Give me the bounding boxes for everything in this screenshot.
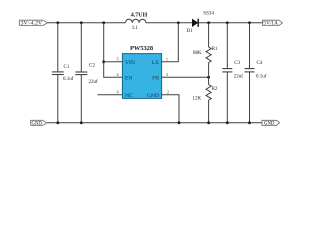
ground net label right GND: [262, 120, 280, 126]
svg-text:4.7UH: 4.7UH: [131, 13, 148, 19]
wire bottom rail: [47, 122, 262, 124]
svg-text:1: 1: [166, 58, 168, 62]
junction dot bottom rail at C3: [226, 121, 229, 124]
wire VIN pin: [104, 61, 123, 63]
junction dot bottom rail at C4: [248, 121, 251, 124]
junction dot top rail at C4: [248, 21, 251, 24]
wire top rail from input label to inductor L1: [47, 22, 125, 24]
capacitor C3 22uf: [222, 23, 243, 123]
svg-text:4: 4: [117, 73, 119, 77]
svg-text:C2: C2: [89, 63, 95, 68]
svg-text:12K: 12K: [193, 96, 202, 101]
capacitor C1 0.1uf: [52, 23, 74, 123]
wire NC stub: [98, 94, 123, 96]
wire top rail from diode to output label: [199, 22, 263, 24]
svg-text:LX: LX: [152, 60, 159, 66]
ground net label left GND: [31, 120, 47, 126]
svg-text:88K: 88K: [193, 51, 202, 56]
svg-text:2: 2: [167, 91, 169, 95]
svg-text:0.1uf: 0.1uf: [256, 75, 267, 80]
resistor R2 12K: [193, 77, 218, 123]
wire top rail from inductor to diode D1: [146, 22, 192, 24]
junction dot top rail at C3: [226, 21, 229, 24]
wire GND pin to bottom rail: [162, 95, 179, 123]
junction dot bottom rail at R2: [207, 121, 210, 124]
diode D1 SS34: [187, 11, 215, 34]
svg-text:5V/1A: 5V/1A: [263, 22, 278, 27]
svg-text:GND: GND: [147, 93, 159, 99]
junction dot top rail at R1: [207, 21, 210, 24]
svg-text:GND: GND: [264, 122, 275, 127]
svg-text:EN: EN: [125, 75, 132, 81]
resistor R1 88K: [193, 23, 218, 77]
wire LX pin to top rail: [162, 23, 179, 62]
svg-text:GND: GND: [31, 122, 42, 127]
capacitor C4 0.1uf: [245, 23, 267, 123]
svg-text:R2: R2: [212, 87, 218, 92]
svg-text:D1: D1: [187, 29, 194, 34]
svg-text:3V~4.2V: 3V~4.2V: [21, 22, 43, 27]
wire FB pin to divider junction: [162, 76, 209, 78]
svg-text:0.1uf: 0.1uf: [63, 77, 74, 82]
svg-text:L1: L1: [132, 26, 138, 31]
svg-text:SS34: SS34: [203, 11, 214, 16]
junction dot LX node on top rail: [177, 21, 180, 24]
junction dot top rail at VIN branch: [102, 21, 105, 24]
svg-text:22uf: 22uf: [234, 75, 244, 80]
input net label 3V~4.2V: [19, 20, 47, 27]
svg-text:5: 5: [117, 58, 119, 62]
svg-text:PW5328: PW5328: [130, 45, 153, 52]
op-amp U1 PW5328: [117, 45, 169, 99]
svg-text:C4: C4: [257, 61, 263, 66]
svg-text:6: 6: [117, 91, 119, 95]
svg-text:C1: C1: [64, 65, 70, 70]
svg-text:R1: R1: [212, 47, 218, 52]
svg-text:3: 3: [166, 73, 168, 77]
svg-text:22uf: 22uf: [89, 80, 99, 85]
svg-text:FB: FB: [152, 75, 159, 81]
output net label 5V/1A: [263, 20, 283, 27]
svg-text:C3: C3: [234, 61, 240, 66]
wire VIN branch vertical with EN jog: [104, 23, 123, 77]
junction dot FB divider node: [207, 76, 210, 79]
inductor L1 4.7UH: [126, 13, 148, 32]
junction dot bottom rail at IC GND: [178, 121, 181, 124]
svg-text:VIN: VIN: [125, 60, 135, 66]
junction dot bottom rail at C1: [56, 121, 59, 124]
junction dot bottom rail at C2: [80, 121, 83, 124]
capacitor C2 22uf: [75, 23, 98, 123]
junction dot VIN pin tee: [102, 60, 105, 63]
svg-text:NC: NC: [125, 93, 133, 99]
junction dot top rail at C2: [80, 21, 83, 24]
junction dot top rail at C1: [56, 21, 59, 24]
